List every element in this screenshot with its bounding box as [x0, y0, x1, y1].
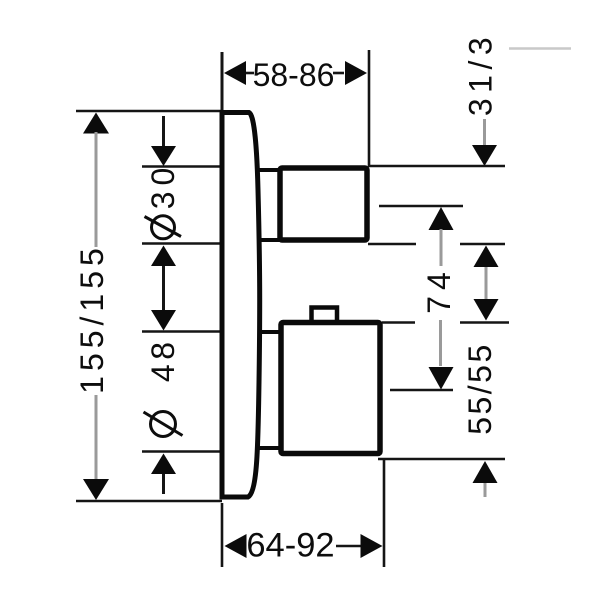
extension line: top knob face, for 58-86	[368, 50, 371, 167]
31/3 lower chain: up arrow under top-knob bottom line	[474, 246, 499, 268]
diameter symbol alone	[144, 412, 183, 437]
down arrow of O30	[151, 146, 176, 166]
up arrow under diameter symbol	[151, 454, 176, 475]
gray leader below	[484, 483, 487, 497]
extension line at bottom-knob bottom level	[378, 458, 505, 461]
down arrow of 31/3 onto knob-top line	[472, 145, 497, 166]
leader below 31/3 (gray)	[483, 119, 486, 145]
extension line plate top, for 155/155	[76, 110, 222, 113]
bottom knob stem	[255, 332, 281, 448]
extension line at bottom-knob bottom level, left of plate	[142, 450, 220, 453]
leader below up arrow	[162, 474, 165, 494]
dimension line 58-86 right stub	[333, 72, 344, 75]
svg-text:55/55: 55/55	[462, 342, 498, 435]
up arrow under O30	[151, 246, 176, 267]
bottom knob	[281, 323, 380, 454]
155/155 down arrow	[83, 479, 109, 500]
leader above O30 dimension	[162, 116, 165, 146]
155/155 upper gray leader	[95, 132, 98, 247]
55/55 bottom up arrow	[473, 461, 498, 483]
bottom knob safety tab	[312, 308, 338, 323]
dimension line 58-86 left arrow	[224, 61, 246, 85]
faint top-right reference line	[509, 47, 571, 50]
74 bottom extension line (bottom knob centerline)	[390, 389, 453, 392]
svg-text:31/3: 31/3	[463, 32, 499, 116]
dimension line 64-92 right stub	[336, 545, 362, 548]
svg-text:64-92: 64-92	[246, 527, 334, 565]
svg-text:74: 74	[421, 266, 457, 314]
74 lower gray leader	[439, 320, 442, 366]
extension line: bottom knob face, for 64-92	[383, 460, 386, 567]
74 down arrow	[429, 367, 454, 390]
extension line at top-knob bottom level, left of plate	[142, 242, 220, 245]
extension line at bottom-stem top level	[142, 330, 220, 333]
dimension line 58-86 left stub	[246, 72, 254, 75]
top knob stem	[255, 170, 281, 240]
svg-text:30: 30	[145, 162, 181, 210]
dimension line 58-86 right arrow	[345, 61, 367, 85]
svg-text:155/155: 155/155	[74, 243, 110, 394]
svg-text:58-86: 58-86	[253, 57, 335, 93]
55/55 top down arrow	[474, 299, 499, 321]
diameter symbol of O30	[145, 216, 182, 239]
escutcheon plate (side profile)	[222, 113, 260, 498]
extension line at top-knob top level, left of plate	[142, 165, 220, 168]
gray leader	[485, 267, 488, 299]
svg-text:48: 48	[145, 338, 181, 383]
top knob	[280, 168, 367, 240]
155/155 lower gray leader	[95, 395, 98, 480]
extension line: plate back below plate, for 64-92	[221, 503, 224, 567]
extension line at top-knob top level, right of knob	[368, 165, 505, 168]
extension line at bottom-knob top level (2 segments)	[382, 321, 415, 324]
down arrow of 48 chain	[151, 310, 176, 331]
74 upper gray leader	[440, 229, 443, 266]
dimension line 64-92 left arrow	[225, 534, 247, 558]
chain leader between O30 and 48	[162, 266, 165, 310]
155/155 up arrow	[83, 113, 109, 134]
74 up arrow	[429, 207, 454, 230]
extension line plate bottom, for 155/155	[76, 500, 222, 503]
extension line at top-knob bottom level, right of knob (2 segments)	[368, 243, 416, 246]
74 top extension line (top knob centerline)	[379, 205, 463, 208]
extension line: plate back (left) above plate, for 58-86	[221, 52, 224, 112]
dimension line 64-92 right arrow	[361, 534, 383, 558]
